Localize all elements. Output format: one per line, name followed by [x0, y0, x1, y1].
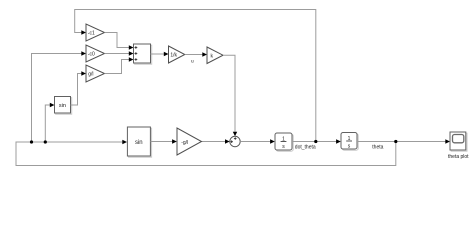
node label theta [372, 145, 383, 151]
wire 1/k to k, node u [185, 52, 207, 64]
svg-text:sin: sin [59, 103, 66, 109]
wire -c0 to sum port2 [105, 51, 134, 55]
junction dot on bus (to sin1) [44, 140, 47, 143]
sum junction circle [230, 136, 240, 146]
gain k [207, 47, 223, 64]
sum block (rectangular, 3 inputs) [134, 44, 152, 64]
block label theta plot [448, 154, 469, 160]
junction dot theta [394, 140, 397, 143]
integrator 1/s (dot_theta) [275, 133, 293, 151]
trig block sin2 [127, 127, 151, 157]
svg-text:dot_theta: dot_theta [295, 144, 316, 150]
svg-text:-g/l: -g/l [181, 140, 188, 146]
wire theta bus riser to -c0 [32, 51, 87, 142]
wire feedback dot_theta to -c1 (top loop) [75, 10, 316, 142]
wire integrator1 to integrator2 with junction [292, 139, 341, 143]
wire sin1 to g/l [71, 71, 87, 105]
gain -c0 [86, 45, 105, 62]
junction dot on bus (to -c0) [30, 140, 33, 143]
integrator 1/s (theta) [341, 133, 358, 151]
gain g/l [86, 65, 105, 82]
wire theta bus riser to sin1 [45, 103, 54, 142]
svg-text:theta: theta [372, 145, 383, 151]
wire k to sum circle (down) [223, 55, 237, 136]
wire integrator2 to scope [357, 139, 450, 143]
svg-text:sin: sin [135, 140, 143, 146]
node label dot_theta [295, 144, 316, 150]
gain 1/k [169, 46, 185, 63]
svg-text:theta plot: theta plot [448, 154, 469, 160]
scope theta plot [450, 132, 467, 151]
theta loop: lower return wire [16, 140, 396, 166]
wire sum to 1/k [151, 52, 169, 56]
wire sin2 to -g/l [150, 139, 176, 143]
wire g/l to sum port3 [105, 57, 134, 73]
trig block sin1 [55, 97, 72, 115]
svg-text:-c0: -c0 [88, 52, 95, 58]
gain -c1 [86, 24, 105, 41]
svg-text:u: u [191, 59, 194, 64]
wire -c1 to sum port1 [105, 33, 134, 50]
junction dot dot_theta [314, 140, 317, 143]
gain -g/l [177, 128, 202, 155]
svg-text:-c1: -c1 [88, 31, 95, 37]
wire sum circle to integrator1 [240, 139, 275, 143]
svg-text:g/l: g/l [88, 72, 93, 78]
wire -g/l to sum circle [202, 139, 230, 143]
svg-text:1/k: 1/k [170, 52, 177, 58]
